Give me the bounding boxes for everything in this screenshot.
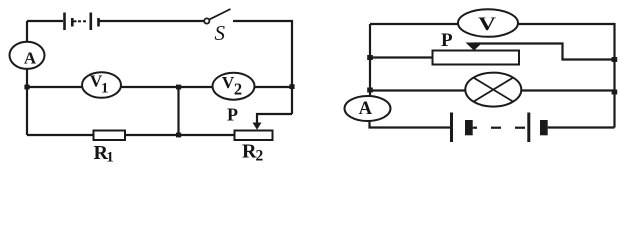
svg-text:P: P: [227, 105, 238, 125]
svg-text:2: 2: [256, 148, 264, 165]
svg-text:V: V: [478, 13, 496, 35]
rheostat R2 body: [235, 131, 273, 141]
left vertical wire: [369, 24, 371, 97]
svg-text:S: S: [215, 21, 226, 45]
wire lamp to right vertical: [521, 89, 614, 91]
ammeter A2: [345, 96, 391, 121]
node left vertical / rheostat wire: [367, 55, 373, 60]
node middle junction: [176, 85, 181, 90]
left vertical wire lower: [26, 69, 28, 135]
node right vertical / V2 wire: [289, 84, 294, 89]
svg-text:A: A: [359, 99, 373, 119]
node left vertical / V1 wire: [24, 85, 29, 90]
voltmeter V2: [213, 73, 255, 100]
wire left junction to lamp: [370, 89, 466, 91]
wire bottom-left to R1: [27, 134, 94, 136]
wire left vertical to rheostat P: [370, 56, 433, 58]
left vertical wire upper: [26, 21, 28, 42]
wire left vertical to V1: [27, 86, 82, 88]
node left vertical / lamp wire: [367, 88, 373, 93]
wire battery to bottom-right corner: [548, 126, 615, 128]
battery B1: [65, 13, 99, 31]
wire V1 to junction to V2: [121, 86, 213, 88]
battery B2: [452, 113, 548, 143]
svg-text:1: 1: [101, 81, 109, 97]
svg-text:A: A: [24, 49, 37, 68]
resistor R1 body: [94, 131, 126, 141]
switch S: [204, 9, 230, 24]
svg-text:1: 1: [106, 150, 114, 166]
node right vertical / lamp wire: [612, 90, 618, 95]
node right vertical / wiper wire: [612, 57, 618, 62]
wire right vertical to wiper arrow: [257, 114, 292, 123]
ammeter A1: [10, 42, 45, 69]
wire top-left segment: [27, 20, 63, 22]
node bottom junction: [176, 133, 181, 138]
lamp L: [465, 73, 521, 107]
wire V2 to right vertical: [255, 86, 293, 88]
wire switch to top-right corner and right vertical: [233, 21, 292, 114]
svg-text:P: P: [441, 30, 453, 51]
svg-text:2: 2: [234, 80, 242, 99]
wire R1 to R2: [125, 134, 235, 136]
wire A2 to bottom wire: [370, 121, 451, 128]
rheostat P wiper arrow: [466, 43, 483, 51]
wire middle-to-bottom link: [177, 87, 179, 135]
wire V to top-right corner, right vertical: [518, 24, 615, 128]
voltmeter V1: [82, 72, 121, 98]
rheostat P body: [433, 51, 520, 65]
voltmeter V: [458, 9, 518, 37]
rheostat R2 wiper arrow: [253, 123, 262, 130]
wire battery to switch: [99, 20, 205, 22]
wire top-left to voltmeter V: [370, 23, 458, 25]
wire wiper to right vertical (step): [474, 44, 615, 60]
